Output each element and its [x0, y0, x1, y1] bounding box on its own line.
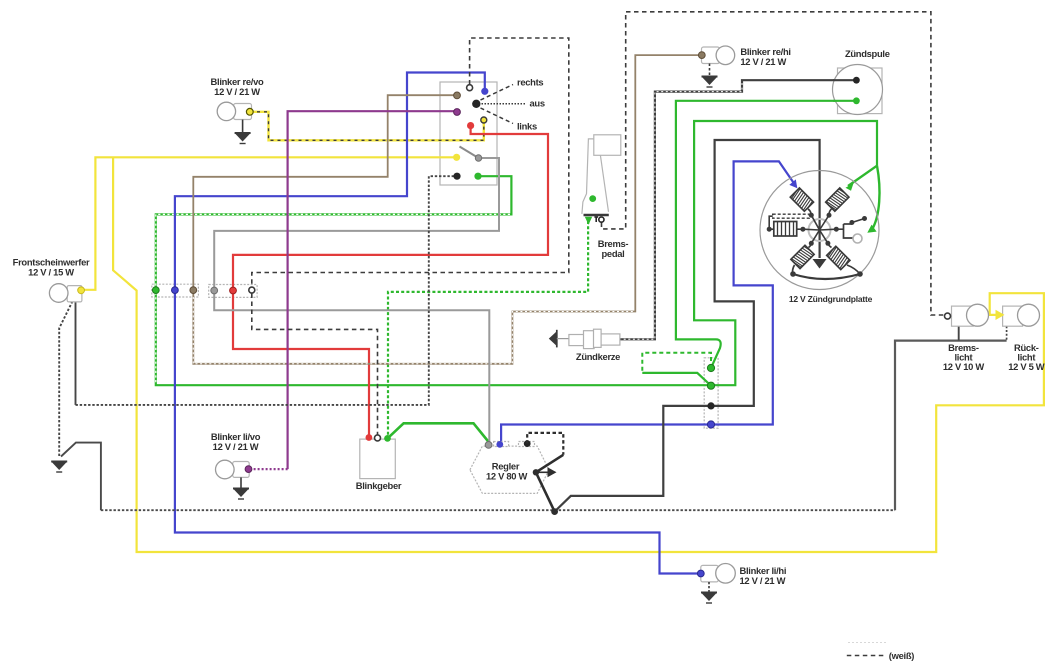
wire green: Zuendspule to terminal strip 3 [676, 101, 857, 368]
node condenser left [767, 227, 772, 232]
coil SE [827, 246, 850, 269]
lamp Bremslicht [945, 304, 989, 326]
wire white (dashed): strip2 to Blinkgeber [252, 294, 378, 435]
points cam circle [853, 234, 862, 243]
node blue Regler [496, 441, 503, 448]
node blue strip3 [707, 421, 714, 428]
regulator Regler [470, 440, 549, 493]
wire black: Zuendspule to spark plug [620, 80, 857, 339]
terminal strip 1 body [152, 284, 199, 297]
coil SW [791, 245, 814, 268]
svg-text:Zündkerze: Zündkerze [576, 351, 620, 362]
junction node on ground bus [551, 508, 558, 515]
svg-text:rechts: rechts [517, 77, 543, 88]
wire green/white jumper strip3 pin1 to pin2 [642, 353, 711, 373]
lamp Blinker re/vo [217, 102, 253, 120]
node black (tail feed) [453, 173, 460, 180]
wire stub black inside Zuendspule [833, 79, 856, 81]
primary coil (left) [774, 222, 797, 237]
ground of Frontscheinwerfer [51, 462, 67, 473]
faint line above legend [848, 642, 886, 644]
wire green/white dashed overlay on switch segment [156, 214, 510, 383]
wire brown: switch / strip1 / Blinker re-hi [193, 55, 702, 364]
wire black: Ruecklicht drop to bus [1006, 326, 1008, 341]
wire black: headlamp to ground [59, 301, 72, 457]
node arrow at Regler output [533, 469, 539, 475]
node black Regler [524, 440, 531, 447]
node gray strip2 [211, 287, 218, 294]
condenser leads [769, 216, 773, 229]
node black strip3 [707, 402, 714, 409]
node blue terminal rechts [481, 88, 488, 95]
pedal contact T mark [594, 216, 598, 218]
magneto 12V Zuendgrundplatte [760, 171, 879, 290]
wire yellow: light switch to headlamp [83, 157, 457, 289]
node brown terminal [454, 92, 461, 99]
node white strip2 [249, 287, 255, 293]
svg-text:12 V / 21 W: 12 V / 21 W [740, 575, 786, 586]
lamp Blinker li/hi [697, 564, 735, 584]
node red terminal [467, 122, 474, 129]
wire black Regler loop [527, 433, 563, 455]
terminal strip 2 body [209, 285, 257, 298]
points lever [852, 219, 865, 223]
coil lead SW outer [792, 265, 794, 275]
spoke nodes [800, 227, 805, 232]
wire black: Bremslicht drop to bus [958, 326, 960, 340]
legend dashed white [847, 655, 886, 657]
wire black: magneto ground circuit to strip3/Regler [555, 140, 820, 512]
node black Zuendspule [853, 77, 860, 84]
wire green: light switch to strips and magneto lighting coil [156, 121, 877, 385]
node green1 strip3 [707, 364, 714, 371]
ignition coil Zuendspule [833, 65, 883, 115]
svg-text:aus: aus [530, 98, 545, 109]
svg-text:12 V 80 W: 12 V 80 W [486, 471, 528, 482]
ground of Blinker re/hi [702, 64, 718, 88]
switch unit body [440, 82, 497, 185]
node white terminal (switch) [467, 85, 473, 91]
wire yellow/black: Blinker re/vo to switch [250, 112, 484, 141]
wire black white-dash overlay (Zuendspule to plug) [621, 83, 742, 339]
wire brown white-dash overlay [193, 297, 633, 364]
wire black Regler to ground bus junction [536, 472, 555, 511]
svg-text:12 V / 15 W: 12 V / 15 W [28, 267, 74, 278]
base plate circle [760, 171, 879, 290]
wire purple: switch to Blinker li/vo [288, 111, 457, 469]
spark plug Zuendkerze [549, 329, 620, 348]
svg-text:12 V 5 W: 12 V 5 W [1008, 361, 1045, 372]
node green2 strip3 [707, 382, 714, 389]
node white Blinkgeber [375, 435, 381, 441]
node yellow terminal links [481, 117, 487, 123]
condenser bar [773, 214, 810, 218]
wire green bridge Blinkgeber to Regler [388, 423, 490, 443]
node SE arc [857, 271, 863, 277]
spokes [803, 215, 836, 243]
wire white (dashed): switch to strip2 [252, 38, 569, 287]
svg-text:Blinkgeber: Blinkgeber [356, 480, 402, 491]
svg-text:(weiß): (weiß) [889, 650, 914, 661]
svg-text:12 V / 21 W: 12 V / 21 W [740, 56, 786, 67]
node brown strip1 [190, 287, 197, 294]
lamp Frontscheinwerfer [49, 284, 84, 303]
node green strip1 [152, 287, 159, 294]
lamp Blinker re/hi [698, 46, 734, 65]
node red strip2 [230, 287, 237, 294]
relay Blinkgeber [360, 434, 396, 479]
breaker points [844, 224, 863, 238]
wire green arc to breaker points [872, 166, 880, 230]
wire black ground bus [61, 443, 101, 511]
node blue strip1 [172, 287, 179, 294]
node red Blinkgeber [366, 434, 373, 441]
wire yellow: branch to tail light (long loop) [113, 157, 1044, 552]
coil lead SW inner [809, 243, 812, 247]
node yellow (light switch feed) [453, 154, 460, 161]
wire blue: switch to Blinker li/hi [175, 73, 701, 574]
coil lead NW inner [808, 209, 811, 215]
node gray Regler [485, 442, 492, 449]
coil lead SE outer [847, 265, 860, 274]
svg-text:links: links [517, 121, 537, 132]
pointer links [481, 108, 514, 124]
node white at pedal [599, 217, 604, 222]
svg-text:Zündspule: Zündspule [845, 48, 890, 59]
node purple terminal [454, 109, 461, 116]
svg-text:12 V / 21 W: 12 V / 21 W [213, 441, 259, 452]
wire black: headlamp to light switch [75, 302, 77, 405]
node gray (light switch out) [475, 155, 481, 161]
svg-text:12 V Zündgrundplatte: 12 V Zündgrundplatte [789, 294, 873, 304]
node green Blinkgeber [384, 435, 391, 442]
ground of Blinker li/hi [701, 582, 717, 603]
pointer aus [482, 103, 527, 105]
svg-text:12 V / 21 W: 12 V / 21 W [214, 86, 260, 97]
wire blue arrowhead into magneto coil [789, 179, 797, 188]
terminal strip 3 (vertical) body [704, 358, 718, 428]
hub [809, 219, 831, 241]
bottom arc [793, 274, 860, 279]
wire stub green inside Zuendspule [833, 100, 856, 102]
coil NE [826, 188, 849, 211]
node green (light out) [474, 173, 481, 180]
svg-text:pedal: pedal [602, 248, 625, 259]
node green on pedal [589, 195, 596, 202]
lamp Ruecklicht [996, 304, 1040, 326]
ground inside magneto [813, 259, 827, 269]
wire green arrow into magneto lighting coil [848, 166, 877, 186]
green arrow at pedal contact [585, 217, 592, 225]
wire red: switch to Blinkgeber [233, 126, 548, 438]
brake pedal Bremspedal [582, 135, 621, 225]
coil NW [790, 188, 813, 211]
wire blue: magneto charge coil to strip3 and Regler [501, 161, 796, 444]
node common aus [472, 100, 480, 108]
coil lead SE inner [828, 243, 832, 247]
lamp Blinker li/vo [216, 460, 252, 479]
node SW arc [790, 271, 796, 277]
wire white (dashed): brake pedal to Bremslicht [602, 12, 945, 315]
wire green: brake pedal switch to Blinkgeber [388, 221, 588, 438]
ground of Blinker li/vo [233, 477, 249, 499]
light switch lever [460, 147, 479, 159]
wire gray: light switch to Regler [214, 158, 499, 444]
node green Zuendspule [853, 97, 860, 104]
svg-text:12 V 10 W: 12 V 10 W [943, 361, 985, 372]
coil lead NE inner [829, 209, 832, 215]
pointer rechts [481, 85, 514, 101]
ground of Blinker re/vo [235, 120, 251, 144]
